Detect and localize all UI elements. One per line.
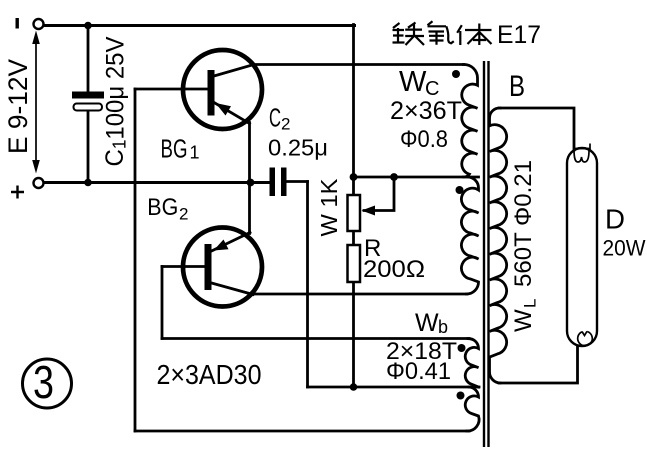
lamp bottom filament [578, 331, 593, 345]
transistor BG1 base bar [208, 70, 215, 116]
capacitor C2 right plate [281, 168, 287, 197]
svg-text:W: W [399, 66, 427, 98]
svg-text:Φ0.8: Φ0.8 [400, 126, 448, 153]
wire C1 top stem [87, 26, 90, 93]
wire potentiometer to resistor link [352, 231, 355, 245]
capacitor C2 left plate [270, 168, 276, 197]
transformer core line right [487, 61, 489, 447]
junction dot C1 bottom [84, 179, 92, 187]
transistor BG1 emitter diagonal [214, 103, 250, 124]
wire top rail from negative terminal to supply column [44, 24, 355, 27]
wire positive rail from + terminal to C2 left plate [44, 181, 271, 184]
transistor BG2 collector diagonal [212, 283, 254, 295]
junction dot emitters on + rail [247, 179, 255, 187]
polarity dot Wc lower [456, 186, 464, 194]
potentiometer wiper arrowhead [362, 206, 376, 216]
junction dot C1 top [84, 22, 92, 30]
svg-text:2: 2 [281, 115, 290, 134]
svg-text:1: 1 [190, 143, 200, 163]
label ferrite (hand-drawn CJK) 铁 [393, 23, 425, 46]
terminal positive (bottom) [34, 178, 44, 188]
junction dot bias node R bottom [350, 383, 358, 391]
svg-text:BG: BG [147, 194, 178, 221]
junction dot wiper branch [390, 173, 398, 181]
voltage arrowhead up [32, 31, 40, 45]
svg-text:200Ω: 200Ω [363, 256, 425, 283]
wire wiper branch of potentiometer [364, 177, 394, 211]
figure number circle 3 [23, 359, 72, 408]
svg-text:L: L [521, 299, 540, 308]
transistor BG2 emitter diagonal [212, 233, 251, 252]
svg-text:BG: BG [161, 133, 188, 163]
wire Wc centre tap run [354, 176, 479, 179]
wire emitter vertical joining BG1 and BG2 emitters through + rail [248, 123, 251, 234]
polarity dot Wb upper [458, 344, 466, 352]
capacitor C1 top plate (solid) [72, 92, 104, 99]
wire BG2 base vertical x=162 [161, 267, 164, 339]
wire BG1 base vertical down x=135 [134, 89, 137, 431]
label ferrite (hand-drawn CJK) 体 [457, 24, 491, 46]
svg-text:C: C [269, 105, 281, 133]
voltage arrow line [35, 34, 37, 170]
wire BG2 base left [162, 265, 205, 268]
transistor BG1 emitter arrowhead (PNP) [216, 103, 232, 116]
svg-text:560T Φ0.21: 560T Φ0.21 [510, 160, 537, 287]
terminal negative (top) [34, 19, 44, 29]
wire Wb centre tap run [308, 386, 480, 389]
winding WL secondary coil [489, 108, 506, 383]
winding Wb upper half coil [465, 338, 478, 387]
svg-text:3: 3 [33, 356, 54, 408]
wire resistor bottom down to bias node [352, 282, 355, 387]
svg-text:W: W [510, 309, 537, 332]
wire WL bottom to lamp [499, 346, 578, 383]
voltage arrowhead down [32, 160, 40, 174]
svg-text:Φ0.41: Φ0.41 [386, 358, 451, 385]
svg-text:2×36T: 2×36T [390, 97, 462, 125]
transistor BG2 circle [183, 228, 262, 307]
winding Wb lower half coil [465, 387, 479, 431]
resistor R body [348, 245, 361, 282]
svg-text:b: b [438, 317, 448, 337]
transistor BG2 base bar [205, 244, 212, 290]
label ferrite (hand-drawn CJK) 氧 [428, 21, 454, 44]
svg-text:W: W [415, 309, 439, 337]
polarity dot Wb lower [457, 392, 465, 400]
winding Wc lower half coil [461, 177, 478, 294]
lamp top filament [574, 144, 590, 163]
svg-text:E17: E17 [497, 21, 541, 49]
wire BG2 base run to Wb upper winding [162, 337, 469, 340]
capacitor C1 bottom plate (hollow) [74, 104, 103, 111]
svg-text:E 9-12V: E 9-12V [3, 59, 33, 154]
wire BG1 base left [135, 88, 208, 91]
svg-text:0.25μ: 0.25μ [268, 135, 328, 161]
transistor BG1 collector diagonal [214, 65, 254, 77]
potentiometer W body [348, 195, 361, 231]
junction dot Wc centre tap at supply column [350, 173, 358, 181]
svg-text:20W: 20W [603, 236, 646, 261]
wire C2 right plate to corner [287, 180, 308, 183]
battery minus sign (rotated) [16, 18, 19, 29]
wire C2 vertical x=307.5 down to bias node [306, 182, 309, 388]
transistor BG1 circle [183, 50, 262, 129]
wire supply vertical column x=353.5 [352, 25, 355, 196]
transistor BG1 collector wire to Wc upper [253, 63, 464, 66]
lamp D tube [567, 148, 597, 346]
wire bottom run to Wb lower winding [135, 430, 469, 433]
svg-text:B: B [509, 70, 525, 103]
polarity dot Wc upper [452, 70, 460, 78]
svg-text:2: 2 [179, 205, 188, 224]
svg-text:W 1K: W 1K [316, 178, 342, 237]
transistor BG2 emitter arrowhead (PNP) [214, 240, 229, 251]
wire C1 bottom stem [87, 110, 90, 183]
battery plus sign [11, 186, 24, 199]
wire WL top to lamp [499, 108, 574, 150]
svg-text:D: D [605, 204, 625, 235]
svg-text:2×3AD30: 2×3AD30 [157, 359, 262, 390]
winding Wc upper half coil [462, 64, 478, 177]
wire BG2 collector to Wc lower winding [253, 293, 467, 296]
transformer core line left [483, 61, 485, 447]
